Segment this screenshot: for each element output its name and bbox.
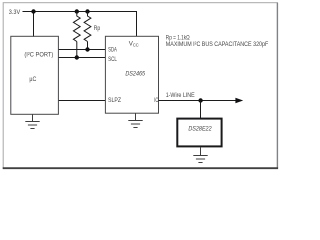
svg-text:(I²C PORT): (I²C PORT)	[24, 51, 53, 58]
wire SCL	[58, 57, 105, 59]
arrowhead 1-Wire line	[235, 98, 243, 104]
svg-text:MAXIMUM I²C BUS CAPACITANCE 32: MAXIMUM I²C BUS CAPACITANCE 320pF	[166, 41, 269, 48]
svg-text:IO: IO	[154, 98, 159, 104]
junction dot Rp2 on SDA	[85, 47, 89, 51]
svg-text:SLPZ: SLPZ	[108, 98, 121, 104]
svg-text:SDA: SDA	[108, 48, 117, 54]
ground for U1	[128, 113, 142, 127]
junction dot node 1-Wire	[198, 98, 202, 102]
wire 3.3V rail	[23, 11, 138, 13]
svg-text:3.3V: 3.3V	[9, 9, 21, 16]
svg-text:µC: µC	[29, 76, 36, 83]
wire Rp2 lead to SDA	[87, 42, 89, 50]
wire SDA	[58, 49, 105, 51]
svg-text:DS28E22: DS28E22	[188, 126, 212, 133]
figure frame	[3, 3, 278, 169]
wire 3.3V drop to uC	[33, 12, 35, 37]
resistor Rp1	[73, 12, 80, 42]
wire drop to DS28E22	[200, 101, 202, 119]
junction dot on rail at uC drop	[31, 9, 35, 13]
ground for uC	[25, 114, 39, 128]
svg-text:1-Wire LINE: 1-Wire LINE	[166, 92, 195, 99]
svg-text:DS2465: DS2465	[125, 71, 145, 78]
resistor Rp2	[84, 12, 91, 42]
svg-text:Rp: Rp	[94, 25, 101, 32]
junction dot on rail at Rp2	[85, 9, 89, 13]
microcontroller U2 box	[11, 36, 59, 114]
wire Rp1 lead to SCL	[76, 42, 78, 58]
ground for U3	[193, 147, 207, 162]
wire IO / 1-Wire line	[159, 100, 237, 102]
svg-text:CC: CC	[133, 42, 139, 47]
wire VCC drop to U1	[136, 12, 138, 37]
bridge U1 DS2465 box	[105, 36, 158, 113]
wire SLPZ	[58, 100, 105, 102]
slave U3 DS28E22 box	[177, 119, 221, 147]
junction dot Rp1 on SCL	[75, 55, 79, 59]
svg-text:SCL: SCL	[108, 57, 117, 63]
junction dot on rail at Rp1	[75, 9, 79, 13]
